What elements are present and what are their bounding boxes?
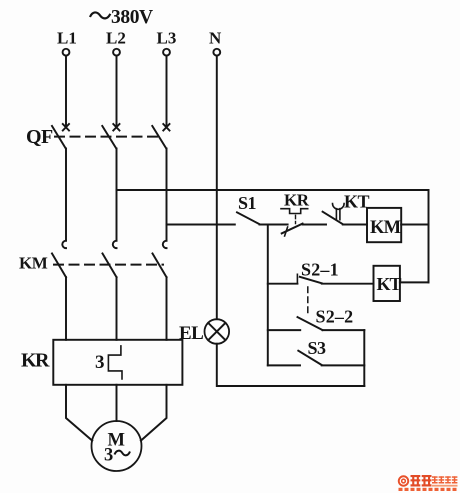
svg-text:KM: KM bbox=[370, 218, 401, 238]
svg-text:3: 3 bbox=[104, 446, 113, 466]
svg-text:KR: KR bbox=[284, 191, 310, 210]
svg-text:QF: QF bbox=[26, 126, 53, 148]
svg-text:KR: KR bbox=[21, 350, 50, 372]
svg-text:S3: S3 bbox=[308, 338, 327, 358]
svg-text:S2–1: S2–1 bbox=[301, 260, 339, 280]
svg-text:EL: EL bbox=[179, 323, 203, 344]
svg-text:3: 3 bbox=[95, 352, 105, 373]
svg-text:L1: L1 bbox=[57, 29, 77, 48]
svg-text:L3: L3 bbox=[157, 29, 177, 48]
svg-text:S2–2: S2–2 bbox=[316, 307, 354, 327]
svg-text:N: N bbox=[209, 29, 222, 48]
svg-text:380V: 380V bbox=[111, 7, 153, 28]
svg-text:KT: KT bbox=[344, 192, 370, 212]
svg-text:L2: L2 bbox=[106, 29, 126, 48]
svg-text:KM: KM bbox=[19, 254, 48, 273]
svg-text:KT: KT bbox=[377, 274, 402, 294]
svg-text:S1: S1 bbox=[238, 193, 257, 213]
